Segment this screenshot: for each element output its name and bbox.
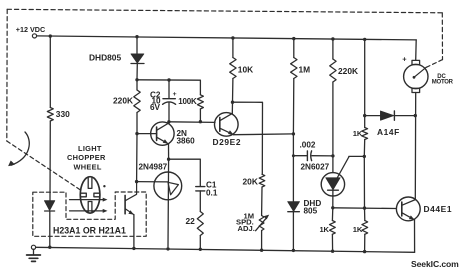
resistor 10K: [230, 58, 253, 79]
wire pot to ground rail: [261, 231, 263, 251]
wire 220K to base node: [136, 113, 138, 134]
capacitor C2 electrolytic: [150, 80, 177, 122]
wire C1 to 22: [199, 191, 201, 212]
wire emitter node to C1: [169, 159, 201, 186]
wire 10K upper: [232, 38, 234, 58]
wire PUT cathode: [332, 190, 334, 208]
resistor 20K: [243, 174, 265, 187]
wire D29E2 emitter to 1M node: [234, 133, 294, 136]
wire 220K upper right: [332, 39, 334, 59]
mechanical coupling dashed border top: [7, 9, 442, 13]
wire 22 to ground rail: [199, 236, 201, 250]
wire D29E2 collector stub: [231, 102, 233, 113]
diode DHD805 bottom: [288, 199, 322, 216]
node ground rail / DHD805: [292, 249, 295, 252]
wire 220K to PUT anode node: [332, 82, 334, 173]
node motor line / A14F: [414, 114, 417, 117]
resistor 1K cathode lower: [320, 221, 336, 235]
wire PUT gate to 1K node: [349, 155, 364, 157]
+12VDC supply terminal: [16, 25, 45, 38]
wire motor to D44E1 collector: [414, 93, 416, 200]
node B diode output: [135, 78, 138, 81]
svg-text:1K: 1K: [353, 129, 363, 138]
wire PUT cathode to D44E1 base: [333, 207, 397, 210]
diode A14F: [365, 111, 416, 137]
node top rail / DHD805: [135, 35, 138, 38]
svg-text:+: +: [402, 54, 407, 63]
svg-text:805: 805: [304, 206, 318, 215]
thyristor 2N6027 PUT: [301, 157, 349, 196]
node ground rail / 2N4987: [166, 247, 169, 250]
node ground rail / 1K a: [331, 250, 334, 253]
svg-text:0.1: 0.1: [206, 188, 218, 197]
node phototransistor collector tap: [135, 180, 138, 183]
svg-text:SeekIC.com: SeekIC.com: [411, 259, 459, 269]
node base of 2N3860: [135, 132, 138, 135]
node ground rail / LED: [48, 246, 51, 249]
svg-text:A14F: A14F: [377, 127, 400, 137]
mechanical coupling dashed border left: [6, 9, 8, 141]
svg-text:+: +: [173, 91, 177, 98]
resistor 220K left: [113, 90, 140, 113]
svg-text:MOTOR: MOTOR: [432, 79, 454, 85]
svg-text:D44E1: D44E1: [424, 204, 453, 214]
mechanical coupling dashed diagonal to chopper wheel: [7, 141, 81, 190]
wire collector node to 20K branch: [233, 102, 263, 174]
wire 1K to ground rail b: [364, 234, 366, 251]
node ground rail / pot: [260, 249, 263, 252]
wire 220K upper: [136, 80, 138, 90]
node top rail / 10K: [231, 36, 234, 39]
resistor 1M: [291, 58, 311, 79]
svg-text:H23A1 OR H21A1: H23A1 OR H21A1: [53, 225, 126, 235]
wire 1K divider to gate node: [363, 140, 365, 209]
node PUT anode / .002: [331, 154, 334, 157]
svg-text:D29E2: D29E2: [213, 137, 242, 147]
svg-text:2N4987: 2N4987: [139, 162, 168, 171]
label light chopper wheel: [67, 144, 106, 172]
node top rail / 1M: [292, 37, 295, 40]
svg-text:22: 22: [186, 216, 196, 226]
wire DHD805 anode: [136, 37, 138, 54]
node top rail / 220K: [331, 37, 334, 40]
wire DHD805 cathode to node B: [136, 64, 138, 80]
node emitter / C1 branch: [167, 158, 170, 161]
optocoupler H23A1 dashed outline: [33, 192, 146, 236]
node .002 tap: [292, 154, 295, 157]
mechanical coupling dashed diagonal to motor: [426, 60, 442, 68]
svg-text:330: 330: [56, 109, 70, 119]
svg-text:DHD805: DHD805: [89, 53, 121, 63]
svg-text:220K: 220K: [113, 96, 133, 106]
wire 2N3860 emitter down: [168, 144, 170, 159]
wire 1M upper: [293, 39, 295, 58]
wire 20K to speed pot: [261, 187, 263, 216]
svg-text:3860: 3860: [177, 137, 196, 146]
svg-text:100K: 100K: [178, 97, 197, 106]
wire 330 to LED: [49, 121, 51, 201]
svg-text:220K: 220K: [338, 66, 358, 76]
svg-text:2N6027: 2N6027: [301, 162, 330, 171]
node D29E2 collector: [231, 101, 234, 104]
wire 1M to emitter node: [292, 79, 294, 134]
wire collector node to D29E2 base: [169, 121, 215, 124]
node gate / 1K divider: [363, 155, 366, 158]
svg-text:+12 VDC: +12 VDC: [16, 25, 45, 34]
diode DHD805 top: [89, 53, 144, 64]
node A14F / divider: [363, 114, 366, 117]
wire 10K to collector node: [232, 79, 234, 103]
node ground rail / phototransistor emitter: [132, 247, 135, 250]
capacitor C1: [196, 181, 218, 198]
wire 330 branch upper: [49, 36, 51, 107]
wire top rail to motor: [415, 40, 418, 61]
node ground rail / 1K b: [363, 250, 366, 253]
svg-text:1K: 1K: [320, 225, 330, 234]
resistor 1K divider: [353, 128, 368, 140]
index dot near wheel: [103, 185, 105, 187]
wire tap to 2N4987 cathode line: [137, 181, 168, 183]
svg-text:.002: .002: [300, 141, 316, 150]
svg-text:1K: 1K: [353, 225, 363, 234]
node top rail / 1K: [363, 38, 366, 41]
node B / C2: [167, 78, 170, 81]
phototransistor of H23A1: [125, 182, 137, 249]
transistor D44E1: [396, 197, 452, 221]
node top rail / 330: [49, 34, 52, 37]
light beam arrow upper: [70, 198, 108, 202]
node C2 bottom / collector 2N3860: [167, 120, 170, 123]
wire node B rail to 100K: [137, 80, 200, 95]
transistor 2N3860: [137, 122, 195, 146]
wire base node down to phototransistor collector: [136, 134, 138, 182]
LED of optocoupler H23A1: [44, 201, 54, 211]
svg-text:WHEEL: WHEEL: [74, 163, 102, 172]
svg-text:LIGHT: LIGHT: [78, 144, 102, 153]
wire PUT cathode node to 1K: [331, 208, 333, 221]
node 1M / D29E2 emitter: [292, 132, 295, 135]
node 100K / base wire: [199, 120, 202, 123]
ground terminal: [27, 245, 41, 261]
wire emitter node down: [292, 134, 294, 250]
svg-text:1M: 1M: [299, 64, 311, 74]
wire 1K divider upper: [364, 39, 366, 127]
transistor D29E2: [213, 113, 242, 147]
resistor 330: [47, 108, 70, 122]
resistor 220K top: [330, 59, 358, 82]
wire 1K to ground rail: [331, 234, 333, 251]
svg-text:ADJ.: ADJ.: [238, 224, 255, 233]
wire ground rail: [36, 247, 415, 252]
wire 100K bottom: [199, 109, 201, 122]
rheostat 1M speed adjust: [236, 211, 269, 233]
svg-text:10K: 10K: [238, 64, 253, 74]
capacitor .002: [293, 141, 333, 161]
chopper wheel: [80, 177, 100, 213]
wire top rail: [37, 36, 417, 40]
shaft rotation arrow: [9, 132, 30, 166]
wire gate node to 1K bottom: [364, 208, 366, 220]
motor M1 DC motor: [402, 54, 453, 92]
resistor 100K: [178, 95, 203, 109]
resistor 22: [186, 212, 204, 236]
mechanical coupling dashed border right: [441, 13, 443, 60]
svg-text:CHOPPER: CHOPPER: [67, 153, 106, 162]
node PUT cathode / base wire: [331, 206, 334, 209]
svg-text:20K: 20K: [243, 176, 258, 186]
svg-text:6V: 6V: [150, 103, 161, 112]
node base wire / 1K: [363, 206, 366, 209]
light beam arrow lower: [70, 209, 108, 213]
node ground rail / 22: [199, 248, 202, 251]
wire LED cathode to ground rail: [49, 211, 51, 247]
resistor 1K emitter lower: [353, 221, 368, 235]
thyristor 2N4987: [139, 159, 182, 247]
wire D44E1 emitter to ground rail: [414, 220, 416, 253]
